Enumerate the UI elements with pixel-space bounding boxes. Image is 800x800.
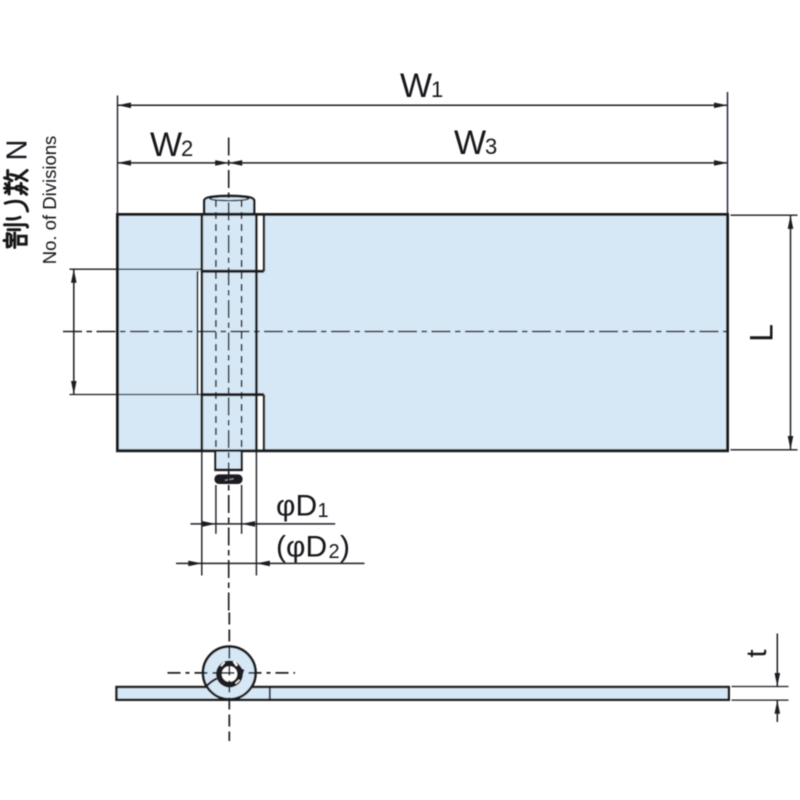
kanji 数 xyxy=(8,182,11,194)
extension line: knuckle left below xyxy=(201,452,203,576)
W3 dimension line xyxy=(229,160,728,166)
t dimension (bottom right) xyxy=(732,634,789,723)
horizontal centerline of plate xyxy=(63,331,727,333)
hidden line: pin right xyxy=(241,200,243,450)
svg-text:1: 1 xyxy=(318,500,329,522)
leaf curl tangent into knuckle xyxy=(206,678,219,687)
clearance gap right of top knuckle xyxy=(258,216,263,270)
L dimension line (right) xyxy=(731,215,798,450)
kanji 割 xyxy=(4,239,7,242)
extension line: pin left below xyxy=(215,485,217,534)
pin bore with retaining ring xyxy=(216,660,243,687)
dimension phi D2 xyxy=(176,561,365,567)
vertical centerline of pin xyxy=(228,138,230,613)
kana り xyxy=(7,217,20,219)
svg-text:1: 1 xyxy=(431,77,443,102)
hinge plate (front view) xyxy=(118,215,728,451)
extension line: pin right below xyxy=(241,485,243,534)
svg-text:φD: φD xyxy=(276,490,317,523)
side plate strip xyxy=(117,687,729,700)
svg-text:): ) xyxy=(340,531,350,564)
dimension phi D1 xyxy=(191,521,336,527)
svg-text:(φD: (φD xyxy=(276,531,327,564)
knuckle divider 2 xyxy=(202,393,264,396)
svg-text:2: 2 xyxy=(329,541,340,563)
knuckle column xyxy=(202,215,257,451)
svg-text:W: W xyxy=(150,126,182,164)
svg-text:N: N xyxy=(2,140,34,161)
knuckle curl joint line xyxy=(269,687,271,700)
extension line: knuckle right below xyxy=(255,452,257,576)
label 割り数N (vertical) xyxy=(4,170,28,247)
pin bottom protrusion xyxy=(215,451,241,470)
W2 dimension line xyxy=(118,160,229,166)
knuckle circle (side view) xyxy=(203,647,256,700)
svg-text:L: L xyxy=(744,324,780,342)
pin cap top face ellipse xyxy=(210,197,249,201)
left leaf cutout edge (middle) xyxy=(197,271,199,394)
retaining clip band xyxy=(215,475,242,484)
svg-text:W: W xyxy=(454,124,486,162)
svg-text:No. of Divisions: No. of Divisions xyxy=(39,136,60,265)
right leaf cutout edge (top) xyxy=(263,215,265,272)
hidden line: pin left xyxy=(215,200,217,450)
pin cap (top) xyxy=(204,196,254,214)
right leaf cutout edge (bottom) xyxy=(263,395,265,451)
svg-text:2: 2 xyxy=(181,136,193,161)
svg-text:W: W xyxy=(400,67,432,105)
clearance gap right of bottom knuckle xyxy=(258,396,263,449)
side view horizontal centerline xyxy=(168,672,296,674)
clearance gap left of middle knuckle xyxy=(199,273,201,394)
side view vertical centerline xyxy=(228,613,230,742)
W1 dimension line xyxy=(118,92,728,215)
knuckle divider 1 xyxy=(202,270,264,273)
svg-text:t: t xyxy=(741,649,773,657)
divisions dimension (left) xyxy=(70,269,202,394)
pin bottom end line xyxy=(214,468,242,471)
svg-text:3: 3 xyxy=(485,134,497,159)
